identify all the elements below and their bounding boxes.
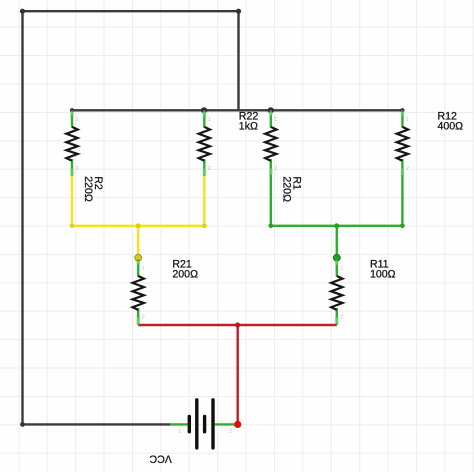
pin labels R11 bbox=[340, 266, 343, 321]
svg-text:1: 1 bbox=[142, 266, 145, 272]
wire: horizontal black bus y=110.3 bbox=[72, 109, 402, 111]
svg-text:2: 2 bbox=[340, 315, 343, 321]
resistor R22 bbox=[199, 110, 210, 175]
resistor R2 bbox=[66, 110, 77, 175]
svg-text:VCC: VCC bbox=[149, 452, 172, 464]
node: bend bottom-left corner bbox=[20, 422, 25, 427]
battery lead pin1 (green) bbox=[170, 423, 187, 425]
svg-text:1: 1 bbox=[208, 117, 211, 123]
resistor R12 bbox=[397, 110, 408, 175]
resistor R1 bbox=[265, 110, 276, 175]
svg-text:1: 1 bbox=[178, 429, 181, 435]
wire: green from R12 pin2 down bbox=[401, 175, 403, 226]
node: green bend at (270.8,225.8) bbox=[269, 224, 274, 229]
node: yellow bend at (72,225.8) bbox=[70, 224, 75, 229]
battery lead pin2 (green) bbox=[215, 423, 238, 425]
pin labels R2 bbox=[76, 117, 79, 172]
battery VCC bbox=[170, 400, 237, 448]
wire: yellow horizontal y=225.8 bbox=[72, 225, 204, 227]
node: yellow bend at (204.3,225.8) bbox=[202, 224, 207, 229]
svg-text:1: 1 bbox=[274, 117, 277, 123]
svg-text:1: 1 bbox=[340, 266, 343, 272]
svg-text:2: 2 bbox=[208, 166, 211, 172]
node: bendpoint top-left corner bbox=[20, 9, 25, 14]
node: green dot at R11 pin1 bbox=[333, 254, 340, 261]
junction: yellow T at (138.2,225.8) bbox=[136, 223, 141, 228]
battery plate short 1 bbox=[188, 417, 191, 432]
wire: green horizontal y=225.8 bbox=[271, 225, 403, 227]
wire: yellow from R2 pin2 down bbox=[71, 175, 73, 226]
wire: vertical black drop from top wire to bus bbox=[237, 11, 239, 110]
svg-text:1: 1 bbox=[406, 117, 409, 123]
node: bus end at R2 pin1 bbox=[70, 108, 74, 112]
wire: green vertical to R11 bbox=[336, 226, 338, 258]
wire: red horizontal y=325 bbox=[138, 324, 337, 326]
wire: red vertical to battery bbox=[236, 325, 238, 424]
wire: yellow from R22 pin2 down bbox=[203, 175, 205, 226]
wire: bottom black wire to battery bbox=[23, 423, 171, 425]
battery plate short 2 bbox=[203, 417, 206, 432]
wire: yellow vertical to R21 bbox=[137, 226, 139, 258]
node: bendpoint top corner at x=238.5 bbox=[236, 9, 241, 14]
pin labels R1 bbox=[274, 117, 277, 172]
wire: top horizontal black wire bbox=[23, 10, 239, 12]
svg-text:2: 2 bbox=[406, 166, 409, 172]
wire: left vertical black wire bbox=[21, 11, 23, 424]
resistor R11 bbox=[331, 259, 342, 324]
junction: bus at R1 pin1 bbox=[268, 107, 274, 113]
svg-text:2: 2 bbox=[229, 429, 232, 435]
svg-text:2: 2 bbox=[76, 166, 79, 172]
junction: bus at R22 pin1 bbox=[201, 107, 207, 113]
svg-text:1: 1 bbox=[76, 117, 79, 123]
node: green bend at (402.4,225.8) bbox=[400, 224, 405, 229]
node: bus end at R12 pin1 bbox=[400, 108, 404, 112]
junction: green T at (336.8,225.8) bbox=[334, 223, 339, 228]
svg-text:2: 2 bbox=[274, 166, 277, 172]
resistor R21 bbox=[133, 259, 144, 324]
node: red dot at battery pin2 bbox=[234, 421, 241, 428]
pin labels R22 bbox=[208, 117, 211, 172]
node: yellow dot at R21 pin1 bbox=[135, 254, 142, 261]
junction: red T at (237.7,325) bbox=[235, 322, 240, 327]
pin labels R12 bbox=[406, 117, 409, 172]
battery plate tall 2 bbox=[211, 400, 214, 448]
battery plate tall 1 bbox=[195, 400, 198, 448]
pin labels R21 bbox=[142, 266, 145, 321]
svg-text:R221kΩ: R221kΩ bbox=[239, 110, 259, 132]
wire: green from R1 pin2 down bbox=[270, 175, 272, 226]
battery pin numbers bbox=[178, 429, 232, 436]
svg-text:2: 2 bbox=[142, 315, 145, 321]
